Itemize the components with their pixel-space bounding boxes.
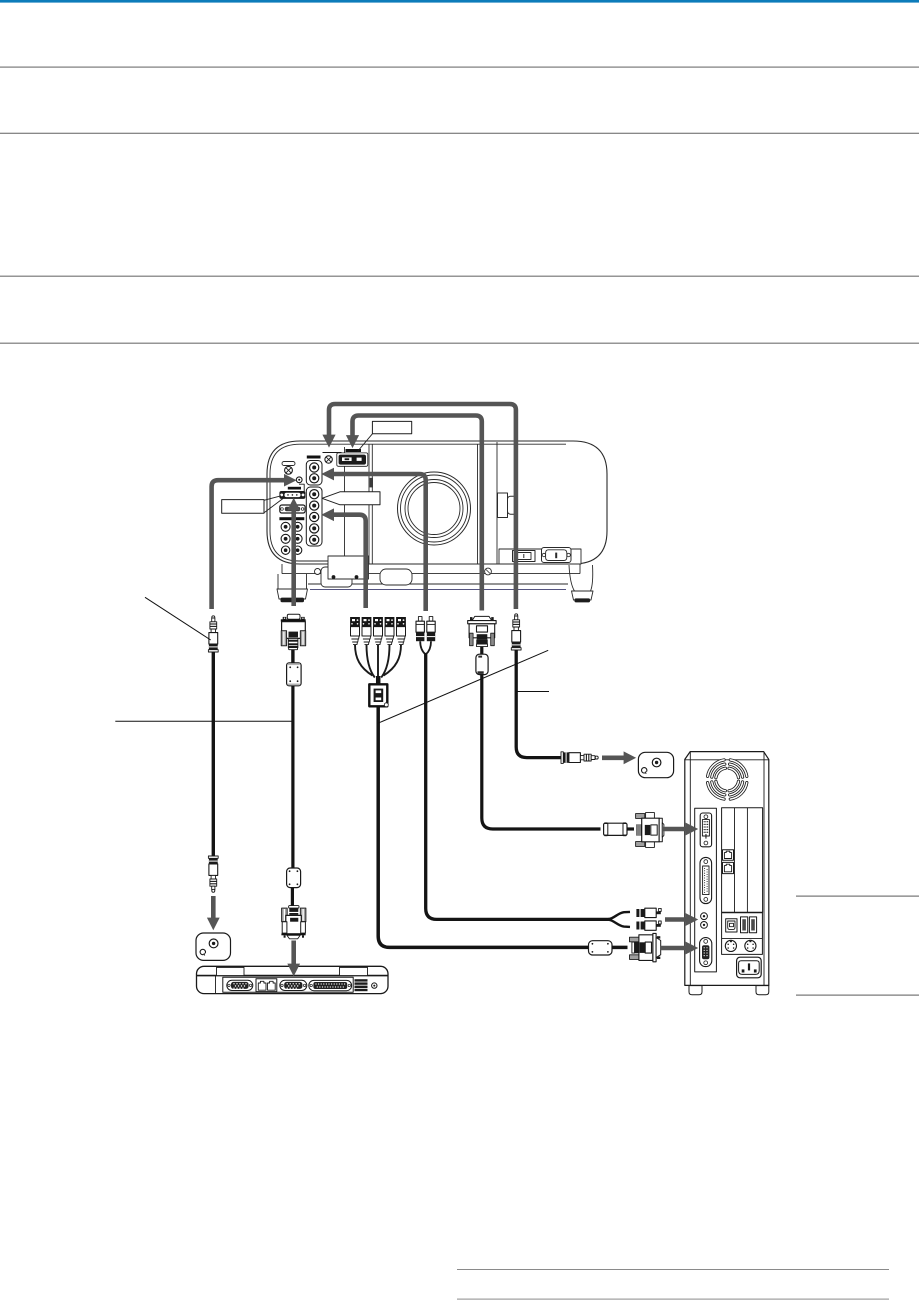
laptop lid line (197, 975, 388, 977)
bracket line (299, 484, 304, 492)
leader short right (517, 691, 549, 693)
port recess (223, 977, 353, 992)
panel plate right edge (344, 447, 346, 556)
ferrite core F (589, 941, 613, 955)
arrow into computer VGA (660, 946, 686, 951)
cable down and across (426, 653, 609, 919)
cable F arrowhead (321, 508, 334, 521)
mini plug up (left) (212, 616, 215, 619)
footer rule a (457, 1269, 889, 1270)
DVI connector (337, 453, 368, 466)
BNC plug 3 (373, 617, 383, 679)
VGA connector down (to laptop) (289, 906, 299, 909)
VGA connector up (472, 616, 492, 621)
DEVICES END (212, 404, 516, 611)
projector inner contour (270, 444, 566, 561)
BNC plug 1 (350, 617, 372, 676)
laptop body (197, 966, 389, 993)
cable A route (remote over top) (329, 404, 516, 609)
RCA plug right bottom (636, 922, 644, 930)
recessed plate (328, 556, 369, 579)
lens square right edge (477, 444, 479, 564)
rule 4 (0, 343, 919, 344)
panel pill (282, 462, 295, 466)
right margin rule a (796, 896, 919, 897)
arrow down to audio device (211, 896, 216, 918)
leader to audio plug (145, 597, 211, 640)
video strip 2 (5 jacks) (306, 487, 322, 546)
base screw 1 (315, 569, 321, 575)
rule 3 (0, 276, 919, 277)
cable B route (DVI over top) (353, 416, 482, 611)
lens square left edges (368, 444, 370, 564)
RCA tails join (420, 641, 431, 654)
VGA connector right (to computer) (632, 942, 635, 953)
hinge 1 (217, 967, 245, 975)
laptop DB25 port (309, 980, 352, 990)
RJ45 jacks (723, 850, 734, 861)
component strip label bar (307, 456, 321, 459)
RCA plug right top (636, 909, 644, 917)
computer label bar (288, 487, 301, 490)
audio device (right) (638, 752, 673, 777)
fork to two plugs (606, 912, 630, 927)
DVI label bar (346, 449, 362, 452)
base screw 2 (485, 568, 492, 575)
cable B arrowhead (346, 435, 359, 448)
audio cable down (212, 652, 215, 856)
DVI connector right (636, 814, 645, 819)
laptop VGA port 1 (227, 980, 253, 990)
audio mini jack (296, 477, 302, 483)
left front foot (278, 574, 307, 589)
cable D route (video RCA) (334, 474, 426, 611)
left port column (695, 808, 717, 972)
USB-B (726, 919, 737, 932)
arrow into computer DVI (663, 827, 686, 832)
laptop VGA port 2 (280, 980, 307, 990)
MONITOR OUT connector (280, 505, 305, 513)
PANEL END (197, 752, 769, 995)
arrow into computer audio (665, 917, 686, 922)
small round jack (372, 983, 377, 988)
hinge 2 (340, 967, 368, 975)
cable down and across to computer (378, 706, 588, 947)
cable down and across to computer DVI (482, 675, 601, 829)
projector body outline (267, 441, 607, 564)
mini plug down (left) (208, 856, 218, 858)
USB / PS2 group (722, 913, 763, 955)
base bottom line (308, 583, 568, 585)
cable E arrow (into COMPUTER IN) (291, 510, 296, 606)
ferrite core E1 (287, 663, 302, 686)
arrow callout (322, 492, 380, 505)
vents (355, 979, 368, 981)
right section divider (496, 442, 498, 564)
callout box 2 (222, 500, 264, 514)
leader horizontal left (115, 720, 292, 722)
footer rule b (457, 1299, 889, 1300)
bottom bracket 1 (321, 567, 352, 587)
COMPUTER IN connector (279, 491, 305, 499)
main switch (513, 551, 536, 562)
audio device (left) (196, 933, 231, 960)
power strip (499, 549, 581, 564)
tower feet (689, 986, 702, 995)
cable C arrowhead (284, 474, 297, 487)
top blue bar (0, 0, 919, 3)
computer DB25 port (700, 857, 712, 903)
cable F route (component) (334, 515, 366, 608)
tower inner lines (685, 759, 769, 761)
cable to laptop (291, 686, 294, 868)
base blue line (310, 588, 566, 590)
remote jack 1 (285, 466, 293, 474)
BNC plug 5 (384, 617, 406, 676)
card eject clip (370, 478, 373, 488)
video strip 1 (306, 461, 322, 486)
tower outline (685, 752, 769, 986)
mini plug up (right) (515, 614, 518, 617)
cable A arrowhead (322, 435, 335, 448)
ferrite core E2 (287, 868, 301, 888)
USB-A x2 (741, 917, 748, 933)
card slot area (722, 808, 763, 912)
VGA combiner block (369, 684, 387, 706)
PS/2 ports (725, 940, 736, 951)
bottom bracket 2 (380, 569, 412, 585)
RCA plug up R (429, 617, 433, 622)
arrow to audio device (602, 755, 624, 760)
right rear foot (569, 565, 593, 591)
audio label bars (279, 517, 291, 520)
RJ jacks block (256, 979, 277, 992)
AC inlet (542, 548, 572, 563)
fan grille (708, 760, 747, 799)
computer DVI port (700, 813, 711, 847)
VGA connector up (below projector) (287, 614, 300, 619)
rule 2 (0, 133, 919, 134)
BNC plug 2 (362, 617, 375, 678)
callout box 1 (372, 421, 411, 433)
cable D arrowhead (321, 468, 334, 481)
audio cable down and right (516, 650, 561, 758)
top row line (323, 452, 342, 454)
ferrite core B (476, 654, 488, 674)
right margin rule b (796, 995, 919, 996)
mini plug right (561, 752, 563, 764)
arrow into laptop (291, 941, 296, 965)
bundle stub (376, 676, 381, 684)
BNC plug 4 (381, 617, 394, 678)
lens rings (398, 472, 471, 545)
base band (282, 573, 580, 575)
computer VGA port (700, 938, 712, 967)
power inlet (737, 957, 762, 978)
ferrite core B2 (604, 823, 627, 835)
RCA audio jacks grid (281, 522, 302, 554)
left divider (215, 976, 217, 994)
RCA plug up L (418, 617, 422, 622)
side latch (498, 493, 508, 518)
remote jack 2 (325, 456, 332, 463)
rule 1 (0, 67, 919, 68)
computer audio jacks (701, 913, 708, 920)
leader diagonal long (378, 650, 548, 723)
cable C route (audio left loop) (212, 480, 285, 609)
